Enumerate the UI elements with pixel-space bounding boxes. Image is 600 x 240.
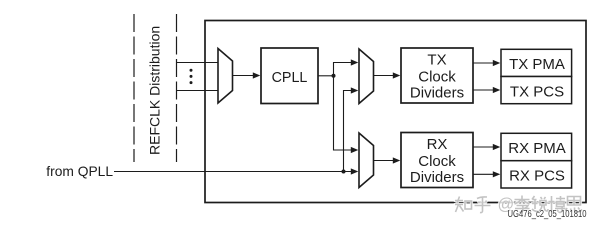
svg-text:Clock: Clock <box>418 153 456 170</box>
svg-text:TX: TX <box>427 52 446 69</box>
svg-text:Dividers: Dividers <box>410 85 464 102</box>
svg-text:TX PCS: TX PCS <box>510 83 564 100</box>
svg-text:Dividers: Dividers <box>410 169 464 186</box>
svg-text:REFCLK Distribution: REFCLK Distribution <box>147 26 163 155</box>
svg-text:UG476_c2_05_101810: UG476_c2_05_101810 <box>508 208 587 220</box>
svg-text:RX PMA: RX PMA <box>508 140 566 157</box>
svg-text:RX PCS: RX PCS <box>509 167 565 184</box>
svg-text:CPLL: CPLL <box>272 70 308 86</box>
svg-text:RX: RX <box>427 136 448 153</box>
svg-text:Clock: Clock <box>418 69 456 86</box>
svg-text:TX PMA: TX PMA <box>509 56 565 73</box>
svg-text:from QPLL: from QPLL <box>46 164 113 179</box>
